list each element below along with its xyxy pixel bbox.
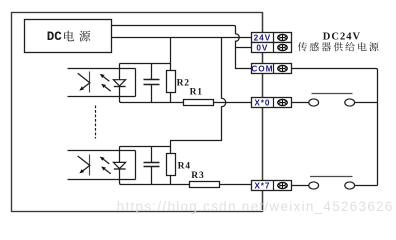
wire SW0 to right bus <box>355 102 378 104</box>
wire R3 to X*7 terminal <box>220 184 252 186</box>
terminal screw COM <box>278 65 287 71</box>
capacitor C1 bottom stem <box>151 85 153 103</box>
wire COM to right bus <box>292 69 378 186</box>
light arrow 2 sensor1 <box>105 87 111 92</box>
phototransistor bar sensor1 <box>89 72 91 93</box>
svg-text:0V: 0V <box>256 43 268 53</box>
svg-text:DC: DC <box>47 30 63 44</box>
svg-text:24V: 24V <box>254 33 271 43</box>
terminal 24V block <box>252 33 292 43</box>
contact SW0 right circle <box>345 99 355 106</box>
wire X*7 screw to contact <box>292 185 309 187</box>
svg-text:https://blog.csdn.net/weixin_4: https://blog.csdn.net/weixin_45263626 <box>117 199 394 214</box>
light arrow 1 sensor2 <box>103 159 109 164</box>
capacitor C1 plates <box>144 80 160 85</box>
wire W1: DC+ to 0V/COM with hop over W2 <box>112 26 252 69</box>
LED D1 triangle <box>113 80 125 86</box>
LED D1 stem bottom + corner to bottom wire <box>120 87 184 103</box>
label 传感器供给电源 <box>298 42 307 51</box>
capacitor C2 top stem <box>151 147 153 163</box>
svg-text:COM: COM <box>251 64 273 74</box>
wire line A sensor1 <box>120 63 171 65</box>
light arrow 2 sensor2 <box>105 169 111 174</box>
LED D2 stem bottom + corner <box>120 169 190 185</box>
svg-text:X*0: X*0 <box>254 98 270 108</box>
terminal screw X*7 <box>278 182 287 188</box>
phototransistor arrows sensor1 <box>78 73 90 88</box>
terminal screw 0V <box>278 44 287 50</box>
sensor2 body right edge <box>135 151 137 180</box>
terminal X*7 block <box>252 181 292 191</box>
PLC module frame <box>12 13 263 212</box>
contact SW0 bar <box>312 93 353 95</box>
terminal 0V block <box>252 43 292 53</box>
svg-text:R1: R1 <box>190 87 203 97</box>
LED D2 stem top <box>119 147 121 163</box>
light arrow 1 sensor1 <box>103 77 109 82</box>
sensor1 body right edge <box>135 69 137 97</box>
phototransistor arrows sensor2 <box>78 156 90 171</box>
resistor R4 bottom stem <box>170 176 172 185</box>
sensor1 body bottom rail <box>68 96 136 98</box>
svg-text:R2: R2 <box>177 78 190 88</box>
PLC module right edge bus <box>262 13 264 212</box>
svg-text:X*7: X*7 <box>254 181 270 191</box>
sensor1 body top rail <box>68 68 136 70</box>
phototransistor bar sensor2 <box>89 155 91 176</box>
contact SW7 left circle <box>309 182 319 189</box>
capacitor C1 top stem <box>151 64 153 80</box>
wire R1 to X*0 terminal <box>214 102 252 104</box>
LED D1 stem top <box>119 64 121 80</box>
contact SW7 right circle <box>345 182 355 189</box>
resistor R2 bottom stem <box>170 93 172 103</box>
terminal screw 24V <box>278 34 287 40</box>
ellipsis dashed wire <box>95 106 97 139</box>
svg-text:DC24V: DC24V <box>323 32 361 43</box>
wire 24V rail to sensor2 with hop over X*0 row <box>171 38 226 154</box>
resistor R4 box <box>167 154 176 176</box>
resistor R1 box <box>184 100 214 106</box>
DC power supply box <box>25 20 112 53</box>
resistor R2 box <box>167 71 176 93</box>
sensor2 body bottom rail <box>68 179 136 181</box>
svg-text:R4: R4 <box>178 161 191 171</box>
wire line A sensor2 <box>120 146 171 148</box>
wire 24V drop to sensor1 rail <box>170 38 172 72</box>
capacitor C2 plates <box>144 163 160 167</box>
capacitor C2 bottom stem <box>151 167 153 185</box>
terminal X*0 block <box>252 98 292 108</box>
contact SW7 bar <box>310 176 353 178</box>
wire X*0 screw to contact <box>292 102 309 104</box>
svg-text:R3: R3 <box>191 171 204 181</box>
contact SW0 left circle <box>309 99 319 106</box>
LED D1 cathode bar <box>114 86 126 88</box>
resistor R3 box <box>190 182 220 188</box>
terminal screw X*0 <box>278 99 287 105</box>
terminal COM block <box>251 64 291 74</box>
wire W2: DC 24V to 24V terminal <box>112 37 252 39</box>
sensor2 body top rail <box>68 150 136 152</box>
LED D2 cathode bar <box>114 168 126 170</box>
wire SW7 to right bus <box>355 185 378 187</box>
wire branch to 0V terminal <box>236 47 252 49</box>
LED D2 triangle <box>113 162 125 168</box>
